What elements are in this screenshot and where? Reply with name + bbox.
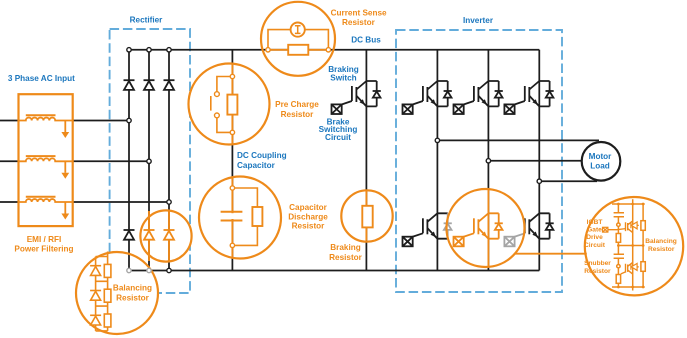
svg-text:Discharge: Discharge [288, 212, 328, 221]
svg-text:Resistor: Resistor [292, 222, 326, 231]
svg-text:IGBT: IGBT [587, 219, 603, 226]
svg-text:Resistor: Resistor [342, 18, 376, 27]
svg-text:Braking: Braking [330, 243, 360, 252]
svg-text:Balancing: Balancing [645, 238, 677, 245]
svg-text:Snubber: Snubber [584, 260, 611, 267]
svg-text:Power Filtering: Power Filtering [14, 244, 73, 253]
svg-text:Inverter: Inverter [463, 16, 494, 25]
svg-text:Circuit: Circuit [584, 242, 606, 249]
svg-text:Resistor: Resistor [584, 268, 611, 275]
svg-text:Gate: Gate [587, 227, 602, 234]
svg-text:Switch: Switch [330, 74, 356, 83]
svg-text:Rectifier: Rectifier [130, 15, 164, 24]
svg-text:3 Phase AC Input: 3 Phase AC Input [8, 74, 75, 83]
svg-text:Capacitor: Capacitor [237, 161, 276, 170]
svg-text:DC Coupling: DC Coupling [237, 151, 287, 160]
svg-text:Pre Charge: Pre Charge [275, 100, 319, 109]
svg-text:Resistor: Resistor [329, 253, 363, 262]
svg-text:Balancing: Balancing [113, 283, 152, 292]
svg-text:DC Bus: DC Bus [351, 35, 381, 44]
svg-text:EMI / RFI: EMI / RFI [27, 235, 62, 244]
svg-text:Resistor: Resistor [281, 110, 315, 119]
svg-text:Load: Load [590, 161, 610, 170]
svg-text:Drive: Drive [586, 234, 603, 241]
svg-text:Motor: Motor [589, 152, 613, 161]
svg-text:Resistor: Resistor [648, 246, 675, 253]
svg-text:Current Sense: Current Sense [331, 9, 387, 18]
svg-text:Capacitor: Capacitor [289, 203, 328, 212]
svg-text:Circuit: Circuit [325, 133, 351, 142]
svg-text:Resistor: Resistor [116, 293, 150, 302]
